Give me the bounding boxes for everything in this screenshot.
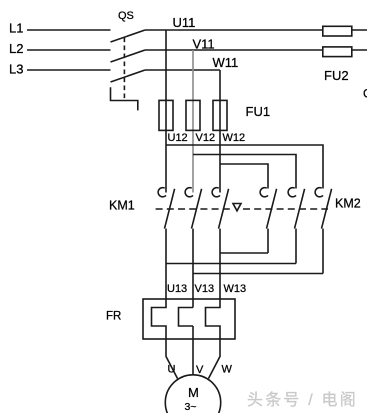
svg-text:U13: U13 <box>167 283 187 295</box>
wire KM1 pole1 lower <box>165 229 167 299</box>
switch QS handle bracket <box>111 87 138 110</box>
switch QS blade pole1 <box>111 30 146 42</box>
KM2 contact pole1 arc <box>260 188 268 197</box>
wire KM1 pole2 lower (gray) <box>192 229 194 299</box>
KM2 contact pole2 blade <box>295 189 305 229</box>
linkage triangle <box>233 204 241 211</box>
svg-text:FU2: FU2 <box>324 68 349 83</box>
svg-text:W12: W12 <box>223 132 246 144</box>
svg-text:L2: L2 <box>9 41 23 56</box>
KM2 contact pole1 blade <box>267 189 277 229</box>
svg-text:QS: QS <box>118 10 134 22</box>
relay FR heater V exit (gray) <box>192 326 194 339</box>
wire U11 vertical <box>165 30 167 193</box>
wire L2 incoming <box>27 49 111 51</box>
wire W to motor <box>209 339 221 379</box>
svg-text:KM2: KM2 <box>335 197 361 211</box>
wire KM2 pole3 lower <box>322 229 324 274</box>
svg-text:W11: W11 <box>213 55 239 70</box>
wire L1 to right / U11 <box>145 29 367 31</box>
fuse FU2 phase1 <box>323 26 352 36</box>
wire branch W to KM2 <box>220 164 268 189</box>
relay FR box <box>143 299 235 339</box>
KM1 contact pole3 arc <box>212 188 220 197</box>
svg-text:C: C <box>363 87 367 101</box>
wire U13 to KM2 pole2 <box>166 263 296 265</box>
wire V to motor (gray) <box>192 339 194 376</box>
wire V13 to KM2 pole3 <box>193 273 323 275</box>
svg-text:L1: L1 <box>9 21 23 36</box>
wire KM2 pole2 lower <box>295 229 297 264</box>
wire L2 to right / V11 <box>145 49 367 51</box>
wire W13 to KM2 pole1 <box>220 252 268 254</box>
svg-text:U12: U12 <box>168 132 188 144</box>
relay FR heater V entry (gray) <box>192 299 194 308</box>
svg-text:V: V <box>196 364 204 376</box>
svg-text:V12: V12 <box>196 132 216 144</box>
wire L3 / W11 <box>145 69 220 71</box>
svg-text:V13: V13 <box>195 283 215 295</box>
svg-text:V11: V11 <box>193 37 215 52</box>
KM2 contact pole2 arc <box>288 188 296 197</box>
KM1 contact pole1 blade <box>165 189 175 229</box>
fuse FU1 phase U <box>159 100 173 130</box>
KM2 contact pole3 blade <box>322 189 332 229</box>
wire branch V to KM2 <box>193 155 296 189</box>
svg-text:FU1: FU1 <box>246 104 271 119</box>
fuse FU2 phase2 <box>323 47 352 57</box>
relay FR heater U <box>152 299 167 339</box>
linkage dashed KM1-KM2 left <box>156 208 231 210</box>
KM2 contact pole3 arc <box>315 188 323 197</box>
relay FR heater W <box>206 299 221 339</box>
linkage dashed KM1-KM2 right <box>243 208 328 210</box>
svg-text:U11: U11 <box>173 15 196 30</box>
switch QS blade pole3 <box>111 70 146 82</box>
wire branch U to KM2 <box>166 145 323 189</box>
wire V11 vertical (gray) <box>192 50 194 193</box>
svg-text:头条号 / 电阁: 头条号 / 电阁 <box>247 391 358 409</box>
switch QS linkage dashed <box>123 38 125 101</box>
svg-text:3~: 3~ <box>185 401 197 413</box>
wire L3 incoming <box>27 69 111 71</box>
svg-text:W: W <box>222 364 233 376</box>
svg-text:L3: L3 <box>9 62 23 77</box>
fuse FU1 phase V <box>186 100 200 130</box>
KM1 contact pole2 arc <box>185 188 193 197</box>
wire W11 vertical <box>219 70 221 193</box>
KM1 contact pole3 blade <box>219 189 229 229</box>
svg-text:FR: FR <box>106 311 121 323</box>
KM1 contact pole2 blade <box>192 189 202 229</box>
switch QS blade pole2 <box>111 50 146 62</box>
wire KM1 pole3 lower <box>219 229 221 299</box>
svg-text:M: M <box>188 385 199 400</box>
motor M circle <box>165 375 220 413</box>
svg-text:W13: W13 <box>224 283 247 295</box>
svg-text:KM1: KM1 <box>109 199 135 213</box>
wire U to motor <box>166 339 178 379</box>
wire KM2 pole1 lower <box>267 229 269 253</box>
relay FR heater V loop <box>179 308 194 327</box>
KM1 contact pole1 arc <box>158 188 166 197</box>
svg-text:U: U <box>168 364 176 376</box>
wire L1 incoming <box>27 29 111 31</box>
fuse FU1 phase W <box>213 100 227 130</box>
